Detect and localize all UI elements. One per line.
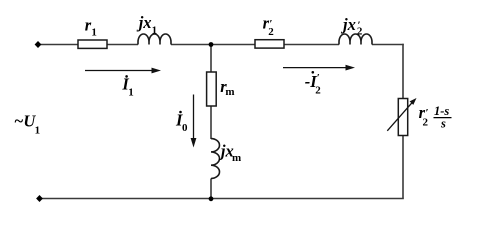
svg-text:m: m <box>225 86 234 98</box>
svg-text:2: 2 <box>315 84 321 96</box>
svg-text:s: s <box>440 117 446 131</box>
svg-text:′: ′ <box>269 18 272 30</box>
svg-text:′: ′ <box>357 19 360 31</box>
svg-text:1: 1 <box>128 86 134 98</box>
wire middle branch lower <box>210 179 212 199</box>
terminal dot top-left <box>35 41 42 48</box>
wire top-right segment <box>372 44 404 46</box>
svg-text:~U: ~U <box>14 111 36 130</box>
wire right vertical <box>402 44 404 199</box>
svg-text:jx: jx <box>136 13 152 32</box>
resistor r2' <box>255 40 284 48</box>
svg-text:′: ′ <box>425 107 428 119</box>
label I1 (dotted) <box>121 75 133 99</box>
label -I2' (dotted) <box>305 71 322 96</box>
resistor rm <box>207 72 217 106</box>
wire middle branch upper <box>210 45 212 140</box>
svg-text:1: 1 <box>152 24 158 36</box>
label jx2' <box>340 15 363 38</box>
variable resistor r2'(1-s)/s <box>387 98 416 136</box>
label rm <box>220 77 234 98</box>
wire top-middle segment <box>171 44 339 46</box>
inductor xm <box>211 139 219 179</box>
resistor r1 <box>78 40 107 48</box>
current arrow -I2' <box>283 65 355 71</box>
label r2' (1-s)/s <box>419 103 452 131</box>
current arrow I1 <box>85 68 161 74</box>
label I0 (dotted) <box>175 110 188 133</box>
node junction bottom (dot) <box>209 196 214 201</box>
svg-text:m: m <box>232 152 241 164</box>
node junction top (dot) <box>209 42 214 47</box>
wire bottom <box>39 198 404 200</box>
inductor x1 <box>138 34 171 45</box>
svg-text:jx: jx <box>340 15 356 34</box>
source label ~U1 <box>14 111 40 136</box>
terminal dot bottom-left <box>36 195 43 202</box>
wire top-left segment <box>38 44 138 46</box>
svg-text:1: 1 <box>91 26 97 38</box>
inductor x2' <box>339 34 372 45</box>
label jx1 <box>136 13 157 36</box>
current arrow I0 (down) <box>191 95 197 148</box>
svg-text:′: ′ <box>317 72 320 84</box>
svg-text:0: 0 <box>182 122 188 134</box>
label jxm <box>218 142 241 164</box>
label r2' <box>263 14 275 39</box>
svg-text:1: 1 <box>35 125 41 137</box>
label r1 <box>85 15 97 38</box>
